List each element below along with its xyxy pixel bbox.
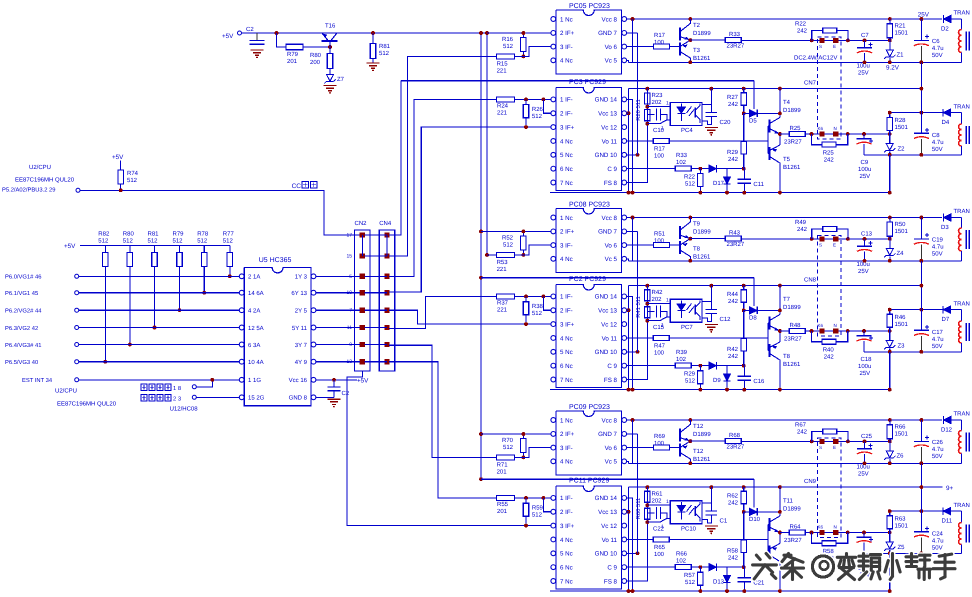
transistor T5 B1261 (PNP)	[768, 147, 770, 160]
wire T collector riser	[779, 286, 781, 315]
svg-text:7 Nc: 7 Nc	[560, 180, 573, 187]
svg-text:Vc 5: Vc 5	[605, 58, 618, 65]
svg-text:R39: R39	[676, 349, 688, 356]
svg-text:R44: R44	[727, 291, 739, 298]
resistor R27 242	[743, 89, 745, 93]
svg-text:R29: R29	[684, 371, 696, 378]
pin PC11 right GND 10	[622, 551, 627, 556]
svg-text:2Y 5: 2Y 5	[295, 308, 308, 315]
diode D11	[943, 508, 950, 515]
svg-text:PC09 PC923: PC09 PC923	[569, 404, 610, 411]
pin PC2 left 6	[551, 363, 556, 368]
resistor R62 242	[743, 487, 745, 491]
zener Z3	[889, 331, 891, 341]
transistor T4 D1899 (NPN)	[768, 120, 770, 133]
zener Z7	[329, 69, 331, 76]
svg-text:+5V: +5V	[112, 154, 124, 161]
svg-text:R60 511: R60 511	[635, 498, 642, 520]
wire interstage riser	[920, 261, 922, 310]
svg-text:GND 14: GND 14	[595, 495, 618, 502]
svg-text:TRAN: TRAN	[954, 10, 970, 17]
svg-text:CC: CC	[292, 183, 302, 190]
diode D5	[744, 112, 750, 114]
resistor R44 242	[743, 286, 745, 290]
wire stage bottom rail	[550, 192, 890, 194]
transistor T11 D1899 (NPN)	[768, 518, 770, 531]
wire Vcc top rail	[627, 419, 942, 421]
pin PC2 right FS 8	[622, 377, 627, 382]
wire CN2-CN4 link	[365, 292, 388, 294]
wire GND14 down	[627, 99, 633, 192]
ground opto	[705, 525, 718, 527]
wire lane L4 to IF+ block1-929	[389, 127, 551, 292]
diode D7	[943, 306, 950, 313]
svg-text:DC2.4W/AC12V: DC2.4W/AC12V	[794, 55, 837, 62]
wire GND8 stub	[316, 396, 334, 398]
svg-text:242: 242	[728, 500, 739, 507]
svg-text:D4: D4	[942, 119, 950, 126]
svg-text:Vcc 8: Vcc 8	[602, 417, 618, 424]
svg-text:50V: 50V	[932, 453, 943, 460]
wire output row 929	[780, 330, 789, 332]
wire IF+ stage2 feed	[481, 230, 551, 232]
svg-text:TRAN: TRAN	[954, 104, 970, 111]
svg-text:R79: R79	[287, 51, 299, 58]
svg-text:100: 100	[654, 350, 665, 357]
wire Vo6 to R driver	[627, 447, 654, 449]
svg-text:Z4: Z4	[897, 250, 905, 257]
resistor R63 1501	[889, 511, 891, 516]
diode D10	[744, 511, 750, 513]
svg-text:+5V: +5V	[222, 33, 234, 40]
pad K6 lower	[819, 530, 824, 535]
svg-text:FS 8: FS 8	[604, 180, 618, 187]
pin U5 left 10 4A	[239, 359, 244, 364]
svg-text:CN9: CN9	[804, 478, 817, 485]
wire U5 output to CN2	[316, 361, 360, 363]
svg-text:P6.1/VG1 45: P6.1/VG1 45	[5, 290, 38, 297]
wire FS rail1	[481, 277, 754, 279]
svg-text:Vcc 16: Vcc 16	[289, 377, 308, 384]
pin U5 right 5Y 11	[311, 325, 316, 330]
ground below R81	[367, 62, 380, 64]
wire U5 output to CN2	[316, 327, 360, 329]
wire input row	[79, 309, 242, 311]
svg-text:25V: 25V	[860, 173, 871, 180]
wire stage bottom rail	[550, 590, 890, 592]
resistor R42 242	[743, 310, 745, 338]
transformer winding	[960, 218, 962, 229]
svg-text:C 9: C 9	[607, 166, 617, 173]
svg-text:Z6: Z6	[897, 453, 905, 460]
svg-text:15 2G: 15 2G	[248, 395, 265, 402]
pin CN4 9	[384, 342, 389, 347]
pin CN4 11	[384, 325, 389, 330]
pin CN4 13	[384, 359, 389, 364]
svg-text:C 9: C 9	[607, 564, 617, 571]
pin PC09 left 2	[551, 432, 556, 437]
wire Vcc13 stub	[627, 511, 629, 513]
connector CN8 dashed outline	[818, 236, 842, 337]
wire opto in upper	[647, 106, 670, 108]
svg-text:T5: T5	[783, 156, 791, 163]
svg-text:R67: R67	[795, 422, 807, 429]
svg-text:T8: T8	[783, 353, 791, 360]
svg-text:14 6A: 14 6A	[248, 290, 264, 297]
wire +5V rail to stage1	[242, 32, 552, 34]
svg-text:2 IF+: 2 IF+	[560, 30, 575, 37]
pad N lower	[833, 131, 838, 136]
svg-text:E: E	[833, 44, 836, 49]
svg-text:3 IF+: 3 IF+	[560, 523, 575, 530]
wire IF- pin2 jog	[543, 99, 550, 113]
diode D4	[943, 109, 950, 116]
optocoupler internal PC10	[670, 501, 702, 524]
wire Vcc rail2	[629, 285, 922, 287]
wire FS8 column	[627, 89, 647, 183]
pad E upper	[833, 439, 838, 444]
wire R53 feed	[487, 254, 497, 256]
svg-text:R17: R17	[654, 146, 666, 153]
wire GND7 stub	[627, 433, 638, 435]
svg-text:23R27: 23R27	[784, 537, 802, 544]
svg-text:R64: R64	[790, 524, 802, 531]
pin PC08 left 2	[551, 229, 556, 234]
wire input row	[79, 292, 242, 294]
pin PC3 right C 9	[622, 166, 627, 171]
svg-text:23R27: 23R27	[727, 43, 745, 50]
svg-text:R41 511: R41 511	[636, 296, 642, 318]
svg-text:PC11 PC929: PC11 PC929	[569, 478, 609, 485]
svg-text:9+: 9+	[946, 485, 954, 492]
pin CN4 7	[384, 308, 389, 313]
svg-text:T4: T4	[783, 99, 791, 106]
svg-text:512: 512	[223, 238, 234, 245]
diode D8	[744, 309, 750, 311]
svg-text:50V: 50V	[932, 343, 943, 350]
wire opto collector	[702, 301, 711, 303]
svg-text:GND 10: GND 10	[595, 551, 618, 558]
svg-text:4 Nc: 4 Nc	[560, 58, 573, 65]
svg-text:R70: R70	[502, 437, 514, 444]
wire lane L9 to IF+ block3-929	[347, 371, 551, 526]
svg-text:TRAN: TRAN	[954, 502, 970, 509]
pin PC3 right GND 10	[622, 152, 627, 157]
svg-text:D13: D13	[713, 579, 725, 586]
svg-text:C25: C25	[861, 433, 873, 440]
wire bottom rail Vc	[629, 260, 962, 262]
svg-text:PC10: PC10	[681, 526, 697, 533]
zener Z1	[889, 40, 891, 50]
pin PC3 left 1	[551, 97, 556, 102]
wire D riser from rail1	[753, 479, 755, 507]
wire Vo6 to R driver	[627, 46, 654, 48]
svg-text:E: E	[833, 243, 836, 248]
svg-text:D1899: D1899	[693, 431, 711, 438]
svg-text:3 IF+: 3 IF+	[560, 124, 575, 131]
pin PC09 right GND 7	[622, 432, 627, 437]
wire out to stage bottom	[889, 553, 891, 591]
svg-text:R81: R81	[148, 231, 160, 238]
svg-text:242: 242	[797, 28, 808, 35]
svg-text:T3: T3	[693, 47, 701, 54]
pad S upper	[819, 236, 824, 241]
pad K6 lower	[819, 131, 824, 136]
resistor R49 242 bypass	[812, 229, 823, 239]
wire Vc5 stub	[627, 60, 629, 62]
pin PC08 right GND 7	[622, 229, 627, 234]
svg-text:50V: 50V	[932, 545, 943, 552]
watermark Toutiao handle	[756, 555, 760, 559]
svg-text:C18: C18	[861, 356, 873, 363]
svg-text:D3: D3	[941, 224, 949, 231]
wire U5 output to CN2	[316, 344, 360, 346]
capacitor C25 100u 25V	[864, 441, 866, 448]
svg-text:R55: R55	[497, 501, 509, 508]
wire R input to IF- pin3	[515, 448, 551, 458]
pin PC09 left 1	[551, 418, 556, 423]
wire FS rail1	[481, 478, 754, 480]
capacitor C11	[743, 169, 745, 179]
wire CN2-CN4 link	[365, 327, 388, 329]
svg-text:7 Nc: 7 Nc	[560, 578, 573, 585]
svg-text:R48: R48	[790, 322, 802, 329]
wire stage bottom rail	[550, 389, 890, 391]
svg-text:PC3 PC929: PC3 PC929	[569, 79, 606, 86]
svg-text:R49: R49	[795, 219, 807, 226]
capacitor C21	[743, 567, 745, 577]
pin U5 left 1 1G	[239, 377, 244, 382]
pin PC11 right Vc 12	[622, 523, 627, 528]
pin PC11 left 7	[551, 579, 556, 584]
svg-text:Vc 5: Vc 5	[605, 256, 618, 263]
svg-text:12 5A: 12 5A	[248, 325, 264, 332]
pin CN4 15	[384, 253, 389, 258]
svg-text:1: 1	[666, 499, 669, 505]
pin PC11 left 4	[551, 537, 556, 542]
svg-text:2 IF-: 2 IF-	[560, 111, 573, 118]
wire input row	[79, 361, 242, 363]
svg-text:10 4A: 10 4A	[248, 359, 264, 366]
wire Vcc16 to +5V	[316, 379, 357, 381]
wire CN2-CN4 link	[365, 234, 388, 236]
svg-text:50V: 50V	[932, 52, 943, 59]
svg-text:1501: 1501	[895, 431, 909, 438]
svg-text:R29: R29	[727, 149, 739, 156]
zener Z4	[889, 239, 891, 249]
transistor T12 D1899 (NPN)	[679, 429, 681, 442]
resistor R29 242	[743, 113, 745, 141]
pin PC3 left 4	[551, 139, 556, 144]
wire Vc5 stub	[627, 461, 629, 463]
svg-text:PC7: PC7	[681, 324, 693, 331]
wire input row	[79, 275, 242, 277]
svg-text:PC2 PC929: PC2 PC929	[569, 276, 606, 283]
junction R80 to row	[128, 343, 132, 347]
svg-text:4 Nc: 4 Nc	[560, 537, 573, 544]
resistor R51 100	[654, 243, 670, 248]
transformer winding 929	[960, 511, 962, 522]
resistor R64 23R27	[789, 530, 805, 535]
svg-text:GND 7: GND 7	[598, 30, 617, 37]
wire IF- pin2 jog	[543, 296, 550, 310]
svg-text:221: 221	[497, 68, 508, 75]
svg-text:R21: R21	[895, 23, 907, 30]
diode C9 series	[709, 362, 716, 369]
pin PC11 left 1	[551, 496, 556, 501]
svg-text:CN8: CN8	[804, 277, 817, 284]
svg-text:K6: K6	[818, 323, 824, 328]
junction T16 base node	[328, 45, 332, 49]
wire +5V bank rail	[80, 245, 230, 247]
wire Vc5 stub	[627, 259, 629, 261]
wire U5 output to CN2	[316, 275, 360, 277]
svg-text:Vcc 8: Vcc 8	[602, 16, 618, 23]
pin PC2 left 4	[551, 336, 556, 341]
svg-text:5 Nc: 5 Nc	[560, 551, 573, 558]
svg-text:R80: R80	[123, 231, 135, 238]
svg-text:R42: R42	[727, 346, 739, 353]
svg-text:N: N	[834, 126, 837, 131]
svg-text:2 IF+: 2 IF+	[560, 229, 575, 236]
svg-text:512: 512	[98, 238, 109, 245]
svg-text:T8: T8	[693, 246, 701, 253]
wire U5 output to CN2	[316, 292, 360, 294]
svg-text:R80: R80	[310, 52, 322, 59]
wire 929 lower out rail	[864, 154, 961, 156]
pin U5 left 6 3A	[239, 342, 244, 347]
svg-text:D9: D9	[713, 377, 721, 384]
svg-text:512: 512	[685, 378, 696, 385]
wire R input to IF- pin3	[515, 245, 551, 255]
pin PC3 right Vc 12	[622, 125, 627, 130]
svg-text:R51: R51	[654, 231, 666, 238]
svg-text:R27: R27	[727, 94, 739, 101]
wire Vcc rail2	[629, 486, 943, 488]
resistor R57 512 512	[699, 567, 701, 571]
wire GND10 stub	[627, 154, 638, 156]
svg-text:P6.2/VG2# 44: P6.2/VG2# 44	[5, 308, 42, 315]
pad E upper	[833, 236, 838, 241]
wire GND7 to GND10 column	[637, 231, 639, 351]
wire lane L3 to R24	[389, 99, 497, 276]
svg-text:R57: R57	[684, 572, 696, 579]
wire Vcc top rail	[627, 217, 942, 219]
svg-text:100: 100	[654, 39, 665, 46]
diode D2	[944, 15, 951, 22]
svg-text:1501: 1501	[895, 30, 909, 37]
pin PC3 right Vo 11	[622, 139, 627, 144]
junction R79 to row	[178, 308, 182, 312]
wire GND7 stub	[627, 230, 638, 232]
svg-text:100: 100	[654, 153, 665, 160]
svg-text:201: 201	[497, 469, 508, 476]
diode D12	[944, 416, 951, 423]
pin PC09 left 3	[551, 445, 556, 450]
wire C9 row	[627, 168, 675, 170]
resistor R38 512 512	[525, 296, 527, 301]
svg-text:512: 512	[685, 579, 696, 586]
pin PC2 right Vcc 13	[622, 308, 627, 313]
svg-text:GND 10: GND 10	[595, 349, 618, 356]
wire opto collector	[702, 104, 711, 106]
svg-text:23R27: 23R27	[784, 336, 802, 343]
svg-text:D1899: D1899	[783, 304, 801, 311]
svg-text:242: 242	[728, 101, 739, 108]
svg-text:P6.0/VG1# 46: P6.0/VG1# 46	[5, 274, 41, 281]
svg-text:K6: K6	[818, 126, 824, 131]
svg-text:15: 15	[346, 254, 352, 260]
svg-text:+5V: +5V	[357, 377, 369, 384]
capacitor C16	[743, 366, 745, 376]
svg-text:PC08 PC923: PC08 PC923	[569, 202, 610, 209]
transistor T12 B1261 (PNP)	[679, 444, 681, 457]
resistor R55 201 input	[497, 495, 515, 500]
svg-text:Vc 5: Vc 5	[605, 459, 618, 466]
svg-text:1501: 1501	[895, 523, 909, 530]
svg-text:C20: C20	[720, 119, 732, 126]
capacitor C2 at U5	[333, 380, 335, 387]
resistor R24 221 input	[497, 97, 515, 102]
svg-text:4.7u: 4.7u	[932, 446, 944, 453]
resistor R17 100	[654, 44, 670, 49]
svg-text:K6: K6	[818, 525, 824, 530]
capacitor C9 100u 25V	[863, 134, 865, 138]
svg-text:R20 511: R20 511	[635, 99, 642, 121]
svg-text:4 Nc: 4 Nc	[560, 256, 573, 263]
svg-text:5 Nc: 5 Nc	[560, 152, 573, 159]
svg-text:4.7u: 4.7u	[932, 336, 944, 343]
svg-text:4.7u: 4.7u	[932, 45, 944, 52]
wire CN2 pad link r1-r2	[361, 235, 363, 256]
diode D13	[726, 567, 728, 576]
pin PC05 left 4	[551, 58, 556, 63]
svg-text:GND 10: GND 10	[595, 152, 618, 159]
svg-text:1Y 3: 1Y 3	[295, 274, 308, 281]
pad S upper	[819, 38, 824, 43]
svg-text:R37: R37	[497, 300, 509, 307]
svg-text:202: 202	[652, 99, 663, 106]
capacitor C7 100u 25V	[864, 40, 866, 47]
resistor R66 1501	[889, 420, 891, 424]
pin PC05 right Vcc 8	[622, 17, 627, 22]
pin PC3 right GND 14	[622, 97, 627, 102]
pin PC2 left 1	[551, 294, 556, 299]
pin PC11 right GND 14	[622, 496, 627, 501]
svg-text:1: 1	[661, 323, 664, 329]
svg-text:R15: R15	[497, 61, 509, 68]
wire 929 top rail	[890, 309, 962, 311]
svg-text:GND 7: GND 7	[598, 431, 617, 438]
zener Z6	[889, 441, 891, 451]
svg-text:B1261: B1261	[693, 456, 711, 463]
node blanking1 input	[141, 384, 147, 391]
svg-text:TRAN: TRAN	[954, 411, 970, 418]
svg-text:1 Nc: 1 Nc	[560, 16, 573, 23]
svg-text:6 3A: 6 3A	[248, 342, 260, 349]
svg-text:D17: D17	[713, 180, 725, 187]
transistor (PNP)	[768, 546, 770, 559]
svg-text:5 Nc: 5 Nc	[560, 349, 573, 356]
svg-text:R17: R17	[654, 32, 666, 39]
pin CN4 5	[384, 274, 389, 279]
resistor R25 23R27	[789, 132, 805, 137]
svg-text:R43: R43	[729, 230, 741, 237]
svg-text:512: 512	[148, 238, 159, 245]
svg-text:1501: 1501	[895, 124, 909, 131]
resistor R59 512 512	[525, 498, 527, 503]
wire CN2-CN4 link	[365, 309, 388, 311]
